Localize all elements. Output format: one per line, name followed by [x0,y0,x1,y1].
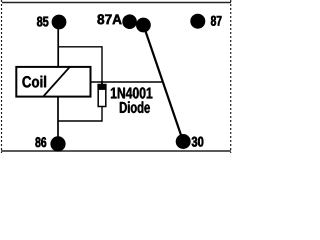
wire 85 to coil top [57,22,59,67]
wire mechanical link coil to armature [91,81,163,83]
terminal 87 [190,14,221,29]
terminal 30 [176,134,204,149]
armature pivot node [136,18,151,33]
terminal 87A [97,14,137,29]
wire armature 30 to 87A [143,25,183,142]
wire coil bottom to 86 [57,97,59,144]
terminal 85 [37,15,66,30]
terminal 86 [35,136,65,151]
wire branch to diode anode [58,47,102,85]
diode D1 1N4001 [97,81,152,113]
wire diode cathode to 86 wire [58,107,102,122]
relay coil K1 [16,67,90,97]
